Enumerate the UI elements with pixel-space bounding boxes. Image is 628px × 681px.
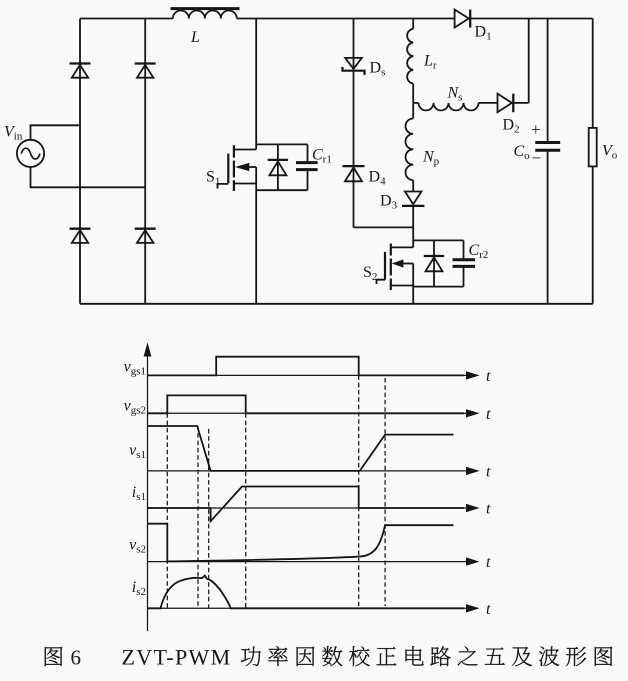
diode Ds schottky [345, 58, 362, 69]
inductor Np [412, 103, 414, 119]
capacitor Co [535, 141, 560, 144]
wire bridge leg B [144, 19, 146, 304]
wire Co branch bottom [547, 151, 549, 304]
inductor Ns [419, 103, 479, 111]
wire S1 drain from top rail [255, 19, 257, 150]
svg-text:ZVT-PWM: ZVT-PWM [122, 645, 232, 670]
wire bridge leg A [79, 19, 81, 304]
wire D3 to S2 drain [412, 206, 414, 248]
wire top rail left segment [80, 18, 173, 20]
wire S2 source to bottom rail [412, 287, 414, 304]
wire Ns to D2 [479, 102, 498, 104]
wire Co branch top [547, 19, 549, 143]
dashed timing line t1 [166, 413, 168, 608]
trace is2 [148, 576, 465, 609]
dashed timing line t2 [197, 426, 199, 608]
wire D2 output riser [528, 19, 530, 103]
inductor L [173, 11, 237, 19]
dashed timing line t4 [245, 413, 247, 608]
wire S1 network top [256, 143, 307, 145]
wire S2 network bottom [413, 286, 463, 288]
svg-text:t: t [486, 601, 491, 618]
svg-text:t: t [486, 464, 491, 481]
diode D3 [405, 192, 422, 205]
capacitor Cr2 [463, 240, 465, 259]
waveform axis row vs2 [148, 561, 467, 563]
diode bridge D-A-top [70, 62, 91, 64]
wire S2 arrow to source [412, 264, 414, 287]
wire top rail middle segment [237, 18, 455, 20]
dashed timing line t3 [208, 429, 210, 608]
svg-text:t: t [486, 554, 491, 571]
waveform axis row vgs2 [148, 412, 467, 414]
wire Lr top [412, 19, 414, 29]
svg-text:t: t [486, 501, 491, 518]
diode bridge D-A-bottom [70, 228, 91, 230]
wire Ds branch [353, 19, 355, 228]
transistor S1 [234, 149, 256, 151]
waveform axis row vs1 [148, 470, 467, 472]
wire S1 source to bottom rail [255, 167, 257, 304]
diode bridge D-B-bottom [135, 228, 156, 230]
wire Lr to node [412, 84, 414, 103]
wire D4 to S2 node [354, 226, 414, 228]
waveform axis row is2 [148, 607, 467, 609]
svg-text:t: t [486, 406, 491, 423]
trace vs2 [148, 524, 454, 562]
wire Vo branch top [592, 19, 594, 128]
trace vgs2 [148, 395, 465, 413]
ac source Vin [17, 140, 44, 167]
svg-text:−: − [532, 149, 542, 168]
trace vgs1 [148, 357, 465, 376]
waveform vertical axis [147, 346, 149, 631]
trace is1 [148, 487, 465, 522]
diode S2 body [433, 240, 435, 286]
wire bottom rail [80, 303, 593, 305]
diode S1 body [277, 144, 279, 190]
caption text [45, 647, 63, 666]
inductor Lr [407, 29, 413, 84]
waveform axis row vgs1 [148, 374, 467, 376]
wire S2 network top [413, 239, 463, 241]
diode D4 [343, 165, 365, 167]
wire Vin bottom lead [31, 167, 146, 187]
resistor Vo load [589, 128, 597, 166]
wire D2 to output node [513, 102, 528, 104]
wire Np to D3 [412, 180, 414, 191]
trace vs1 [148, 426, 454, 471]
dashed timing line t6 [384, 378, 386, 606]
svg-text:L: L [190, 29, 200, 46]
wire S1 network bottom [256, 189, 307, 191]
wire top rail right segment [470, 18, 593, 20]
wire Vin top lead [31, 125, 81, 140]
diode D1 [455, 10, 469, 28]
transistor S2 [391, 246, 413, 248]
svg-text:t: t [486, 368, 491, 385]
diode D2 [498, 94, 512, 113]
capacitor Cr1 [307, 144, 309, 162]
svg-text:6: 6 [71, 646, 82, 670]
dashed timing line t5 [358, 375, 360, 606]
wire Vo branch bottom [592, 166, 594, 303]
node Lr-Ns-Np junction [413, 102, 418, 104]
svg-text:+: + [531, 120, 541, 139]
diode bridge D-B-top [135, 62, 156, 64]
waveform axis row is1 [148, 507, 467, 509]
